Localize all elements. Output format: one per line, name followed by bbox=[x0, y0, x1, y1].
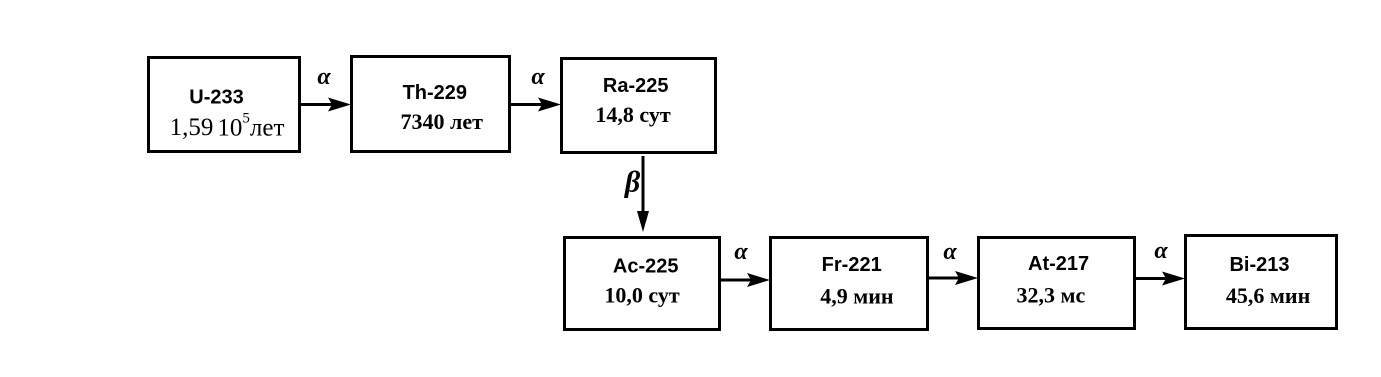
box Bi-213 bbox=[1186, 236, 1337, 329]
svg-text:32,3 мс: 32,3 мс bbox=[1017, 282, 1086, 307]
box Ra-225 bbox=[562, 59, 716, 153]
box Ac-225 bbox=[565, 238, 720, 330]
box Fr-221 bbox=[771, 238, 928, 330]
svg-text:β: β bbox=[624, 166, 641, 199]
arrow alpha At-217 to Bi-213 bbox=[1136, 238, 1185, 286]
svg-text:Th-229: Th-229 bbox=[403, 82, 467, 104]
svg-text:Ac-225: Ac-225 bbox=[613, 256, 679, 278]
svg-text:14,8 сут: 14,8 сут bbox=[595, 102, 670, 127]
svg-text:α: α bbox=[943, 239, 957, 265]
arrow beta Ra-225 down to Ac-225 bbox=[637, 156, 649, 232]
label beta bbox=[624, 166, 641, 199]
svg-text:Fr-221: Fr-221 bbox=[822, 254, 882, 276]
svg-text:α: α bbox=[1154, 238, 1168, 264]
svg-text:4,9 мин: 4,9 мин bbox=[820, 284, 894, 309]
svg-text:U-233: U-233 bbox=[189, 86, 243, 108]
svg-text:1,59105лет: 1,59105лет bbox=[170, 111, 285, 142]
svg-text:Ra-225: Ra-225 bbox=[603, 75, 669, 97]
box U-233 bbox=[149, 58, 300, 152]
box At-217 bbox=[979, 238, 1135, 329]
svg-text:α: α bbox=[317, 64, 331, 90]
arrow alpha U-233 to Th-229 bbox=[301, 64, 351, 112]
svg-text:α: α bbox=[531, 64, 545, 90]
svg-text:45,6 мин: 45,6 мин bbox=[1226, 283, 1311, 308]
svg-text:10,0 сут: 10,0 сут bbox=[604, 283, 679, 308]
box Th-229 bbox=[352, 57, 510, 152]
svg-text:α: α bbox=[734, 239, 748, 265]
arrow alpha Ac-225 to Fr-221 bbox=[721, 239, 770, 287]
svg-text:At-217: At-217 bbox=[1028, 253, 1089, 275]
svg-text:Bi-213: Bi-213 bbox=[1229, 254, 1289, 276]
svg-text:7340 лет: 7340 лет bbox=[400, 109, 483, 134]
arrow alpha Th-229 to Ra-225 bbox=[511, 64, 561, 112]
arrow alpha Fr-221 to At-217 bbox=[929, 239, 978, 285]
